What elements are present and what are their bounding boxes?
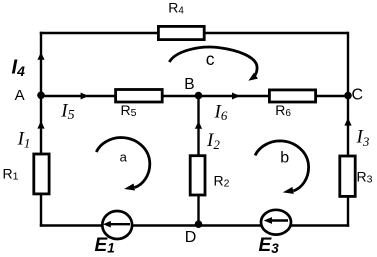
resistor R5: [116, 90, 163, 103]
wire bottom: E3 to bottom-right corner: [291, 224, 349, 227]
node A: [37, 92, 45, 100]
wire middle horizontal: R6 to C: [316, 95, 348, 98]
wire middle horizontal: B to R6: [199, 95, 270, 98]
node B: [195, 92, 203, 100]
wire left: top corner down to R1 top: [40, 32, 42, 154]
wire right: R3 bottom to bottom-right corner: [347, 198, 349, 227]
svg-text:A: A: [15, 87, 25, 104]
svg-text:c: c: [206, 49, 215, 69]
resistor R6: [269, 90, 315, 102]
svg-text:B: B: [184, 76, 194, 93]
wire middle horizontal: R5 to B: [163, 95, 199, 98]
loop arrow b: [255, 141, 309, 194]
current arrow I1: [37, 121, 44, 129]
loop arrow a: [96, 138, 150, 191]
resistor R1: [34, 154, 49, 194]
node D: [195, 220, 203, 228]
resistor R4: [158, 26, 204, 39]
svg-text:b: b: [280, 150, 289, 167]
svg-text:a: a: [120, 149, 128, 164]
current arrow I6: [232, 93, 240, 100]
wire middle vertical: R2 bottom to D: [197, 196, 199, 226]
current arrow I5: [81, 93, 89, 100]
current arrow I3: [344, 118, 351, 126]
current arrow I2: [195, 121, 202, 129]
current arrow I4: [37, 52, 44, 60]
wire bottom: left corner to E1: [40, 224, 103, 227]
resistor R3: [340, 156, 355, 196]
wire top: A corner to R4 left: [40, 32, 158, 35]
wire middle vertical: B to R2 top: [197, 96, 199, 156]
svg-text:C: C: [352, 86, 364, 103]
resistor R2: [190, 156, 205, 195]
loop arrow c: [169, 47, 257, 75]
wire bottom: E1 to E3: [132, 224, 262, 227]
source E3: [261, 210, 291, 235]
source E1: [102, 211, 132, 239]
wire right: top-right corner down to R3 top: [347, 32, 349, 156]
svg-text:D: D: [185, 229, 197, 246]
node C: [344, 92, 352, 100]
wire top: R4 right to top-right corner: [205, 32, 349, 35]
wire middle horizontal: A to R5: [41, 95, 115, 98]
wire left: R1 bottom to bottom-left corner: [40, 195, 42, 227]
